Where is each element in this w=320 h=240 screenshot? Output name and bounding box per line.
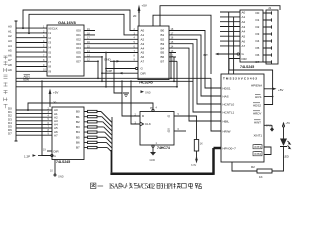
wires GAL to U2 rows3-6 xyxy=(95,39,138,52)
svg-text:B6: B6 xyxy=(161,55,165,59)
svg-text:I1: I1 xyxy=(49,31,52,35)
svg-text:A3: A3 xyxy=(8,39,12,43)
svg-text:HPI: HPI xyxy=(164,184,174,191)
INT1 INT2 tie xyxy=(264,147,271,155)
svg-text:B5: B5 xyxy=(161,51,165,55)
svg-text:A6: A6 xyxy=(8,53,12,57)
svg-text:I7: I7 xyxy=(49,60,52,64)
svg-text:HPI-D0~7: HPI-D0~7 xyxy=(223,146,237,150)
U4 Qbar overline xyxy=(168,128,170,130)
svg-text:A0: A0 xyxy=(242,10,246,14)
svg-text:A4: A4 xyxy=(242,30,246,34)
svg-text:A3: A3 xyxy=(141,42,145,46)
U2 top wire 2 xyxy=(153,15,211,74)
svg-text:B6: B6 xyxy=(76,141,80,145)
svg-text:IO0: IO0 xyxy=(76,29,81,33)
svg-text:HCNTL1: HCNTL1 xyxy=(223,110,235,114)
HPIENA to +5V xyxy=(264,88,283,92)
wire into U2 G pin xyxy=(105,67,138,69)
svg-text:A6: A6 xyxy=(242,39,246,43)
wires U2 B0-B4 to DSP HPI control pins xyxy=(176,31,221,89)
svg-text:B5: B5 xyxy=(76,135,80,139)
svg-text:INT.: INT. xyxy=(203,53,209,57)
svg-text:I2: I2 xyxy=(49,36,52,40)
U4 Q to R1 pulldown xyxy=(174,116,203,167)
74HC74 U4 xyxy=(140,112,174,146)
svg-text:I3: I3 xyxy=(49,41,52,45)
U2 top wire to J1 bus xyxy=(160,6,280,26)
svg-text:B7: B7 xyxy=(161,60,165,64)
svg-text:DIR: DIR xyxy=(242,57,248,61)
svg-text:A7: A7 xyxy=(8,58,12,62)
svg-text:A4: A4 xyxy=(8,44,12,48)
svg-text:D3: D3 xyxy=(256,32,260,36)
GAL right stubs xyxy=(84,31,102,62)
LED cathode to R2 xyxy=(272,153,284,171)
svg-text:+5V: +5V xyxy=(286,122,291,125)
U3 G wire from IOW rail xyxy=(24,80,53,158)
svg-text:HDS1: HDS1 xyxy=(223,86,231,90)
svg-text:HDS2: HDS2 xyxy=(253,103,261,107)
svg-text:R2: R2 xyxy=(251,165,255,169)
74LS245 U2 xyxy=(138,26,169,80)
svg-text:B2: B2 xyxy=(76,120,80,124)
GAL16V8 U1 xyxy=(47,25,84,76)
svg-text:HINT: HINT xyxy=(254,120,261,124)
series resistors RP1 xyxy=(84,110,107,148)
svg-text:D7: D7 xyxy=(8,132,12,136)
svg-text:A7: A7 xyxy=(141,60,145,64)
svg-text:I6: I6 xyxy=(49,55,52,59)
svg-text:I4: I4 xyxy=(49,46,52,50)
svg-text:D5: D5 xyxy=(256,46,260,50)
J1 net labels D0-D7 xyxy=(256,11,260,64)
svg-text:B1: B1 xyxy=(161,33,165,37)
svg-text:5.0P: 5.0P xyxy=(106,69,112,73)
wire A0 riser to top bus xyxy=(22,10,138,31)
svg-text:GND: GND xyxy=(104,57,112,61)
svg-text:A8: A8 xyxy=(8,63,12,67)
svg-text:74LS245: 74LS245 xyxy=(56,160,70,164)
svg-text:B3: B3 xyxy=(76,125,80,129)
svg-text:HBIL: HBIL xyxy=(223,119,230,123)
U3 DIR stub xyxy=(43,149,52,152)
U4 CLR to GND xyxy=(150,145,157,162)
svg-text:A6: A6 xyxy=(141,55,145,59)
svg-text:B7: B7 xyxy=(76,146,80,150)
U6 right stubs fan to J1 xyxy=(263,13,272,62)
svg-text:74LS245: 74LS245 xyxy=(240,65,254,69)
svg-text:IO4: IO4 xyxy=(76,46,81,50)
svg-text:B0: B0 xyxy=(76,110,80,114)
svg-text:D2: D2 xyxy=(256,25,260,29)
ISA bus connector xyxy=(15,21,18,141)
svg-text:A4: A4 xyxy=(141,46,145,50)
svg-text:A2: A2 xyxy=(141,38,145,42)
svg-text:GAL16V8: GAL16V8 xyxy=(58,20,77,25)
svg-text:PR: PR xyxy=(150,107,154,110)
svg-text:HCNTL0: HCNTL0 xyxy=(223,102,235,106)
svg-text:+5V: +5V xyxy=(278,88,283,92)
IOW rail xyxy=(16,80,193,82)
svg-text:D6: D6 xyxy=(256,53,260,57)
svg-text:ISA: ISA xyxy=(109,184,119,191)
svg-text:GND: GND xyxy=(150,159,156,162)
svg-text:IO3: IO3 xyxy=(76,42,81,46)
risers from rails into GAL rows 6-8 xyxy=(97,52,107,88)
U2 right stubs xyxy=(169,31,176,62)
svg-text:B4: B4 xyxy=(161,46,165,50)
svg-text:A5: A5 xyxy=(141,51,145,55)
resistor R2 xyxy=(232,162,272,179)
svg-text:IOW: IOW xyxy=(23,77,29,81)
+5V node for LED xyxy=(282,122,290,139)
svg-text:LED: LED xyxy=(283,155,290,159)
svg-text:HPIENA: HPIENA xyxy=(251,83,262,87)
svg-text:A0: A0 xyxy=(8,25,12,29)
svg-text:I8: I8 xyxy=(49,65,52,69)
svg-text:1.2P: 1.2P xyxy=(24,154,30,158)
LED D1 xyxy=(280,139,290,159)
U4 Qbar stub xyxy=(174,130,186,132)
caption xyxy=(91,183,202,189)
U4 CLK triangle xyxy=(140,122,144,126)
U2 VCC +5V xyxy=(133,4,147,27)
bus merge diagonals xyxy=(101,112,112,153)
third control rail xyxy=(16,86,177,88)
svg-text:GND: GND xyxy=(145,92,151,95)
svg-text:VC5402: VC5402 xyxy=(138,184,156,191)
svg-text:1K: 1K xyxy=(259,175,263,179)
svg-text:I5: I5 xyxy=(49,50,52,54)
ISA address stubs A0-A9 xyxy=(16,28,47,71)
svg-text:IO2: IO2 xyxy=(76,37,81,41)
wire A1 riser to top bus xyxy=(28,14,138,35)
svg-text:A1: A1 xyxy=(242,15,246,19)
svg-text:+5V: +5V xyxy=(142,4,147,8)
svg-text:HCS: HCS xyxy=(255,95,261,99)
svg-text:A7: A7 xyxy=(242,44,246,48)
svg-text:A1: A1 xyxy=(8,29,12,33)
svg-text:I0/CLK: I0/CLK xyxy=(49,26,58,30)
svg-text:D0: D0 xyxy=(256,11,260,15)
wire U6 DIR to DSP HCS/HDS2 xyxy=(229,59,274,105)
svg-text:CLK: CLK xyxy=(145,122,151,126)
HPI data bus (thick) xyxy=(110,117,221,175)
svg-text:B2: B2 xyxy=(161,38,165,42)
wire into U2 DIR pin xyxy=(101,69,138,74)
svg-text:A7: A7 xyxy=(54,133,58,137)
svg-text:+5V: +5V xyxy=(53,91,58,95)
svg-text:A9: A9 xyxy=(8,68,12,72)
svg-text:D7: D7 xyxy=(256,60,260,64)
U3 VCC +5V xyxy=(49,89,59,108)
ISA bus vertical label xyxy=(4,56,8,108)
svg-text:HRDY: HRDY xyxy=(253,111,262,115)
U3 GND pin drop xyxy=(50,160,64,179)
svg-text:D4: D4 xyxy=(256,39,260,43)
svg-text:A1: A1 xyxy=(141,33,145,37)
wires U2 B5-B7 down to rails xyxy=(170,53,178,88)
wire reset to 74HC74 PR xyxy=(27,103,154,112)
svg-text:IO1: IO1 xyxy=(76,33,81,37)
wire to 74HC74 D xyxy=(121,80,140,116)
ISA data stubs D0-D7 xyxy=(16,110,52,135)
svg-text:GND: GND xyxy=(58,176,64,179)
svg-text:TMS320VC5402: TMS320VC5402 xyxy=(223,77,257,81)
svg-text:B4: B4 xyxy=(76,130,80,134)
svg-text:A5: A5 xyxy=(8,49,12,53)
74LS245 U6 xyxy=(240,10,263,62)
verticals from U6 stubs to DSP top xyxy=(229,12,234,74)
AEN rail xyxy=(16,77,211,79)
svg-text:I9: I9 xyxy=(49,70,52,74)
svg-text:A0: A0 xyxy=(141,29,145,33)
svg-text:IO6: IO6 xyxy=(76,55,81,59)
svg-text:A2: A2 xyxy=(242,20,246,24)
TMS320VC5402 U5 xyxy=(221,74,264,162)
svg-text:J1: J1 xyxy=(268,6,272,10)
svg-text:B0: B0 xyxy=(161,29,165,33)
svg-text:HR/W: HR/W xyxy=(223,129,231,133)
svg-text:20: 20 xyxy=(133,14,137,18)
svg-text:74HC74: 74HC74 xyxy=(157,146,170,150)
svg-text:B1: B1 xyxy=(76,115,80,119)
svg-text:D1: D1 xyxy=(256,18,260,22)
svg-text:20: 20 xyxy=(53,101,57,105)
svg-text:IO5: IO5 xyxy=(76,51,81,55)
svg-text:A5: A5 xyxy=(242,35,246,39)
J1 connector xyxy=(266,10,278,64)
svg-text:B3: B3 xyxy=(161,42,165,46)
3.3V diamond node xyxy=(264,124,274,131)
svg-text:1K: 1K xyxy=(200,142,203,145)
74LS245 U3 xyxy=(52,107,84,160)
svg-text:A2: A2 xyxy=(8,34,12,38)
U6 left stubs xyxy=(220,12,240,46)
svg-text:97.2: 97.2 xyxy=(266,124,271,127)
svg-text:A3: A3 xyxy=(242,25,246,29)
svg-text:IO7: IO7 xyxy=(76,59,81,63)
GND net into U2 row8 xyxy=(104,57,112,61)
svg-text:XINT1: XINT1 xyxy=(254,134,263,138)
INT net into U6 G xyxy=(203,53,239,57)
GND label annotation xyxy=(141,90,151,94)
ground symbol xyxy=(123,93,129,97)
svg-text:HAS: HAS xyxy=(223,94,229,98)
svg-text:DIR: DIR xyxy=(141,71,147,75)
svg-text:3.3V: 3.3V xyxy=(191,164,196,167)
svg-text:DIR: DIR xyxy=(54,149,60,153)
